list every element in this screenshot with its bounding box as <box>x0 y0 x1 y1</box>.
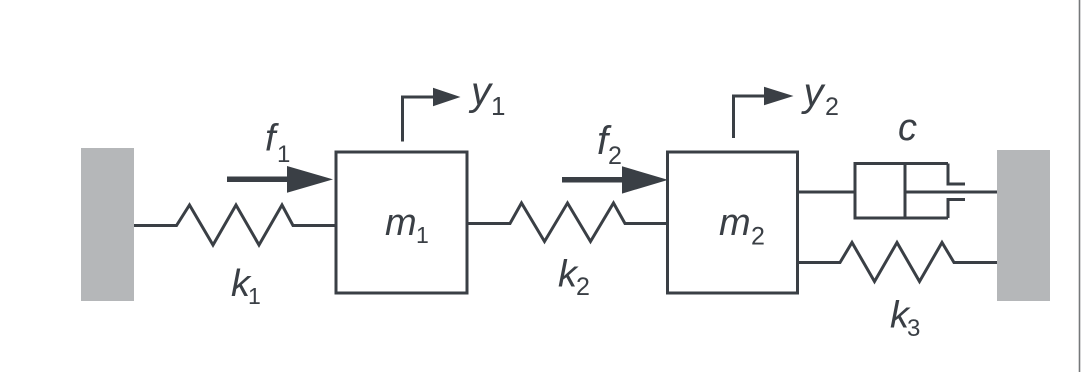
force arrow f1 <box>227 166 333 193</box>
damper rod <box>905 191 997 194</box>
displacement indicator y1 <box>403 88 461 142</box>
damper c cylinder <box>855 164 965 219</box>
link m2 to damper <box>798 191 856 194</box>
force arrow f2 <box>562 166 668 193</box>
wall left <box>81 148 134 301</box>
svg-text:m: m <box>719 202 751 244</box>
spring k2 <box>468 203 668 242</box>
svg-text:3: 3 <box>907 315 920 342</box>
svg-text:1: 1 <box>416 222 429 248</box>
svg-text:m: m <box>385 202 417 244</box>
mass m2 <box>668 152 798 293</box>
svg-text:1: 1 <box>491 91 505 121</box>
svg-text:2: 2 <box>825 93 839 121</box>
damper piston <box>904 164 907 219</box>
svg-text:2: 2 <box>608 142 622 170</box>
wall right <box>997 150 1050 301</box>
spring k3 <box>798 243 998 282</box>
spring k1 <box>134 205 336 245</box>
svg-text:y: y <box>801 71 827 115</box>
svg-text:2: 2 <box>751 223 765 251</box>
svg-text:c: c <box>898 107 917 149</box>
svg-text:1: 1 <box>277 141 290 168</box>
svg-text:2: 2 <box>576 273 590 301</box>
mass m1 <box>336 152 467 293</box>
svg-text:1: 1 <box>248 283 261 309</box>
displacement indicator y2 <box>734 87 794 138</box>
page edge rule <box>1079 0 1081 372</box>
